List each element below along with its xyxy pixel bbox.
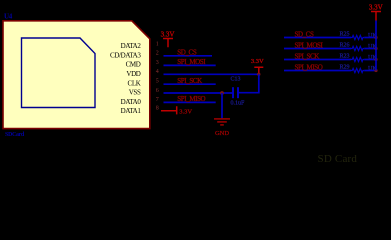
svg-text:3.3V: 3.3V <box>179 109 192 116</box>
svg-text:R25: R25 <box>340 32 350 38</box>
power port 3.3V (bar style) at pin 8 <box>161 106 177 114</box>
wire pin4 VDD to 3.3V <box>164 73 259 75</box>
svg-text:5: 5 <box>156 79 159 85</box>
svg-text:GND: GND <box>215 130 229 137</box>
junction at VSS / cap / gnd <box>220 91 224 95</box>
svg-text:CMD: CMD <box>126 61 141 69</box>
svg-text:SD Card: SD Card <box>318 153 358 165</box>
svg-text:VDD: VDD <box>126 70 140 78</box>
power port 3.3V at pin 1 <box>163 39 173 48</box>
resistor R25 <box>351 35 364 39</box>
svg-text:SPI_SCK: SPI_SCK <box>295 52 320 60</box>
wire pin3 SPI_MOSI <box>164 64 216 66</box>
svg-text:3: 3 <box>156 60 159 66</box>
wire net SPI_SCK (right section) <box>284 59 351 61</box>
wire pin5 SPI_SCK <box>164 83 216 85</box>
wire cap right lead up to 3.3V branch <box>239 74 259 92</box>
junction at pin4 wire / power / cap branch <box>257 73 260 76</box>
svg-text:R23: R23 <box>340 54 350 60</box>
svg-text:VSS: VSS <box>129 89 141 97</box>
junction R23/rail <box>374 58 377 61</box>
svg-text:3.3V: 3.3V <box>251 58 264 65</box>
SD card outline drawing inside body <box>22 38 96 108</box>
resistor R26 <box>351 46 364 50</box>
svg-text:DATA1: DATA1 <box>121 107 142 115</box>
svg-text:6: 6 <box>156 88 159 94</box>
wire net SD_CS (right section) <box>284 37 351 39</box>
svg-text:U4: U4 <box>4 12 13 20</box>
svg-text:7: 7 <box>156 97 159 103</box>
svg-text:8: 8 <box>156 105 159 111</box>
wire pin7 SPI_MISO <box>164 101 216 103</box>
svg-text:R29: R29 <box>340 65 350 71</box>
component U4 body (SD card socket) <box>3 21 150 129</box>
resistor R28 (R23) <box>351 57 364 61</box>
svg-text:SPI_MISO: SPI_MISO <box>177 95 205 103</box>
wire R25 to rail <box>364 37 376 39</box>
svg-text:0.1uF: 0.1uF <box>231 100 246 106</box>
wire junction down to ground <box>221 93 223 118</box>
capacitor C13 <box>233 87 238 98</box>
svg-text:DATA0: DATA0 <box>121 98 142 106</box>
svg-text:SD_CS: SD_CS <box>177 49 197 57</box>
resistor R29 <box>351 68 364 72</box>
svg-text:CD/DATA3: CD/DATA3 <box>110 51 141 59</box>
wire R29 to rail <box>364 70 376 72</box>
junction R25/rail <box>374 36 377 39</box>
power port 3.3V at pin 4 wire end <box>254 67 263 74</box>
wire R26 to rail <box>364 48 376 50</box>
svg-text:SDCard: SDCard <box>5 132 25 138</box>
power port 3.3V at top of pull-up rail <box>371 12 381 21</box>
wire net SPI_MOSI (right section) <box>284 48 351 50</box>
svg-text:3.3V: 3.3V <box>369 3 383 11</box>
svg-text:3.3V: 3.3V <box>161 30 175 38</box>
wire pull-up rail <box>375 21 377 71</box>
svg-text:C13: C13 <box>231 77 241 83</box>
svg-text:SPI_MOSI: SPI_MOSI <box>177 58 206 66</box>
svg-text:1: 1 <box>156 41 159 47</box>
svg-text:SPI_MISO: SPI_MISO <box>295 63 323 71</box>
svg-text:DATA2: DATA2 <box>121 42 142 50</box>
wire pin6 VSS to cap/ground <box>164 92 233 94</box>
wire pin2 SD_CS <box>164 55 213 57</box>
wire net SPI_MISO (right section) <box>284 70 351 72</box>
svg-text:2: 2 <box>156 50 159 56</box>
wire R23 to rail <box>364 59 376 61</box>
svg-text:4: 4 <box>156 69 159 75</box>
svg-text:SD_CS: SD_CS <box>295 30 315 38</box>
junction R29/rail <box>374 69 377 72</box>
svg-text:SPI_SCK: SPI_SCK <box>177 77 202 85</box>
ground symbol GND <box>214 119 230 125</box>
svg-text:CLK: CLK <box>128 79 141 87</box>
svg-text:R26: R26 <box>340 43 350 49</box>
svg-text:SPI_MOSI: SPI_MOSI <box>295 41 324 49</box>
junction R26/rail <box>374 47 377 50</box>
